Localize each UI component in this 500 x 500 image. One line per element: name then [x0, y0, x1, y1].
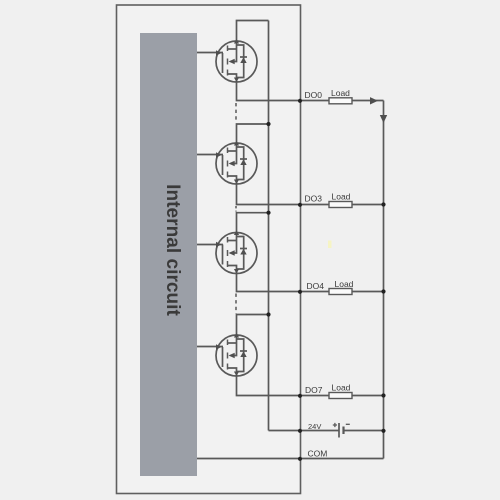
wire: Q4 drain to bus: [237, 315, 269, 336]
dashed continuation DO5..DO6: [235, 294, 237, 314]
wire: right rail vertical: [383, 101, 385, 459]
internal circuit block: [140, 33, 197, 476]
node: DO0 terminal: [298, 99, 302, 103]
battery V1 plus plate: [338, 423, 340, 438]
node: DO4 rail junction: [381, 289, 385, 293]
node: DO4 terminal: [298, 290, 302, 294]
battery minus sign: [346, 423, 350, 425]
load resistor R2: [329, 202, 352, 208]
node: Q3 drain junction: [266, 211, 270, 215]
arrow: current direction down on rail: [380, 115, 387, 123]
svg-text:DO7: DO7: [305, 385, 323, 395]
node: rail 24V junction: [381, 429, 385, 433]
node: DO3 rail junction: [381, 202, 385, 206]
load resistor R1: [329, 98, 352, 104]
battery V1 minus plate: [342, 427, 344, 435]
wire: Q3 source to DO4 line: [237, 274, 330, 292]
wire: gate G3 from internal circuit: [197, 244, 223, 246]
svg-text:Load: Load: [332, 192, 351, 202]
svg-text:Load: Load: [331, 88, 350, 98]
wire: Q2 drain to bus: [237, 124, 269, 144]
node: DO7 terminal: [298, 394, 302, 398]
wire: gate G2 from internal circuit: [197, 154, 223, 156]
svg-text:DO3: DO3: [305, 194, 323, 204]
transistor Q4: [216, 333, 257, 376]
wire: Q1 source to DO0 line: [237, 82, 330, 101]
wire: DO3 line after load to rail: [352, 204, 384, 206]
arrow: current direction right on DO0: [370, 97, 378, 104]
transistor Q1: [216, 39, 257, 82]
svg-text:COM: COM: [308, 449, 328, 459]
node: DO3 terminal: [298, 203, 302, 207]
node: Q4 drain junction: [266, 312, 270, 316]
wire: DO0 line after load to rail: [352, 100, 384, 102]
wire: Q2 source to DO3 line: [237, 184, 330, 205]
wire: Q4 source to DO7 line: [237, 376, 330, 396]
load resistor R4: [329, 393, 352, 399]
svg-text:Load: Load: [332, 383, 351, 393]
svg-text:Load: Load: [335, 279, 354, 289]
svg-text:Internal circuit: Internal circuit: [162, 184, 183, 316]
wire: battery to rail: [344, 430, 384, 432]
device enclosure box: [117, 5, 301, 494]
svg-text:DO0: DO0: [305, 90, 323, 100]
node: Q2 drain junction: [266, 122, 270, 126]
wire: DO4 line after load to rail: [352, 291, 384, 293]
node: DO7 rail junction: [381, 393, 385, 397]
wire: COM line: [197, 458, 384, 460]
node: 24V terminal: [298, 429, 302, 433]
dashed continuation DO1..DO2: [235, 103, 237, 123]
battery plus sign: [333, 423, 337, 427]
wire: Q3 drain to bus: [237, 213, 269, 233]
transistor Q2: [216, 141, 257, 184]
load resistor R3: [329, 289, 352, 295]
wire: DO7 line after load to rail: [352, 395, 384, 397]
wire: gate G1 from internal circuit: [197, 52, 223, 54]
wire: gate G4 from internal circuit: [197, 346, 223, 348]
svg-text:DO4: DO4: [307, 281, 325, 291]
node: COM terminal: [298, 457, 302, 461]
wire: 24V line from bus to terminal: [269, 430, 339, 432]
svg-text:24V: 24V: [308, 422, 321, 431]
dashed continuation: [235, 206, 237, 212]
wire: T1 drain top wire to bus: [237, 21, 269, 41]
yellow highlight artifact: [328, 241, 332, 249]
wire: drain bus vertical: [268, 21, 270, 431]
transistor Q3: [216, 231, 257, 274]
